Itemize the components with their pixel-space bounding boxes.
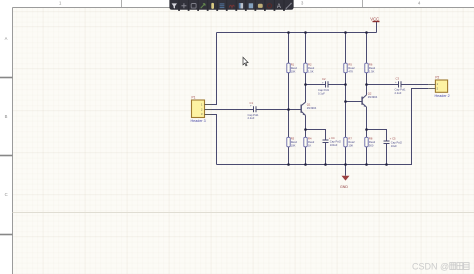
svg-text:2.2uF: 2.2uF (395, 91, 402, 95)
svg-text:R7: R7 (348, 137, 352, 141)
svg-text:Header 2: Header 2 (435, 94, 450, 98)
svg-text:Res2: Res2 (348, 140, 355, 144)
svg-text:500: 500 (369, 144, 374, 148)
svg-text:R4: R4 (308, 137, 312, 141)
svg-text:CSDN @: CSDN @ (412, 261, 449, 271)
svg-text:Header 3: Header 3 (191, 119, 206, 123)
svg-text:Res2: Res2 (348, 66, 355, 70)
svg-text:4: 4 (418, 1, 421, 6)
svg-text:Q2: Q2 (368, 91, 372, 95)
svg-text:Cap Pol2: Cap Pol2 (391, 140, 403, 144)
svg-text:Q1: Q1 (307, 102, 311, 106)
svg-text:2N3904: 2N3904 (368, 95, 378, 99)
svg-text:Res2: Res2 (308, 66, 315, 70)
svg-text:R8: R8 (369, 137, 373, 141)
svg-text:10K: 10K (291, 69, 296, 73)
svg-text:R2: R2 (308, 63, 312, 67)
svg-text:P1: P1 (192, 96, 196, 100)
svg-text:Res2: Res2 (369, 140, 376, 144)
svg-text:Res2: Res2 (291, 140, 298, 144)
svg-text:+: + (395, 80, 397, 84)
svg-text:2.2uF: 2.2uF (248, 116, 255, 120)
svg-text:3: 3 (301, 1, 304, 6)
svg-text:R1: R1 (291, 63, 295, 67)
svg-text:P2: P2 (435, 76, 439, 80)
svg-text:10uF: 10uF (391, 144, 397, 148)
svg-text:R5: R5 (348, 63, 352, 67)
svg-text:Cap Pol1: Cap Pol1 (318, 88, 330, 92)
svg-text:Cap Pol1: Cap Pol1 (248, 113, 260, 117)
svg-text:100uF: 100uF (330, 143, 338, 147)
svg-text:Res2: Res2 (308, 140, 315, 144)
svg-text:+ C5: + C5 (390, 137, 396, 141)
svg-text:A: A (277, 4, 281, 10)
svg-text:Res2: Res2 (291, 66, 298, 70)
svg-text:1K: 1K (308, 144, 311, 148)
svg-text:GND: GND (340, 185, 348, 189)
svg-text:0.1uF: 0.1uF (318, 91, 325, 95)
svg-text:47K: 47K (348, 69, 353, 73)
svg-text:+: + (250, 104, 252, 108)
svg-text:Cap Pol2: Cap Pol2 (330, 140, 342, 144)
svg-text:10K: 10K (348, 144, 353, 148)
svg-text:1.5K: 1.5K (369, 69, 375, 73)
svg-text:A: A (5, 36, 8, 41)
svg-text:C: C (5, 192, 8, 197)
svg-text:+ C4: + C4 (329, 136, 335, 140)
svg-text:B: B (5, 114, 8, 119)
svg-text:R6: R6 (369, 63, 373, 67)
svg-text:2N3904: 2N3904 (307, 106, 317, 110)
svg-text:1: 1 (59, 1, 62, 6)
svg-text:10K: 10K (291, 144, 296, 148)
svg-text:+: + (322, 81, 324, 85)
svg-text:Cap Pol1: Cap Pol1 (395, 88, 407, 92)
svg-text:R3: R3 (291, 137, 295, 141)
svg-text:1.5K: 1.5K (308, 69, 314, 73)
svg-text:Res2: Res2 (369, 66, 376, 70)
svg-text:VCC: VCC (370, 16, 379, 21)
